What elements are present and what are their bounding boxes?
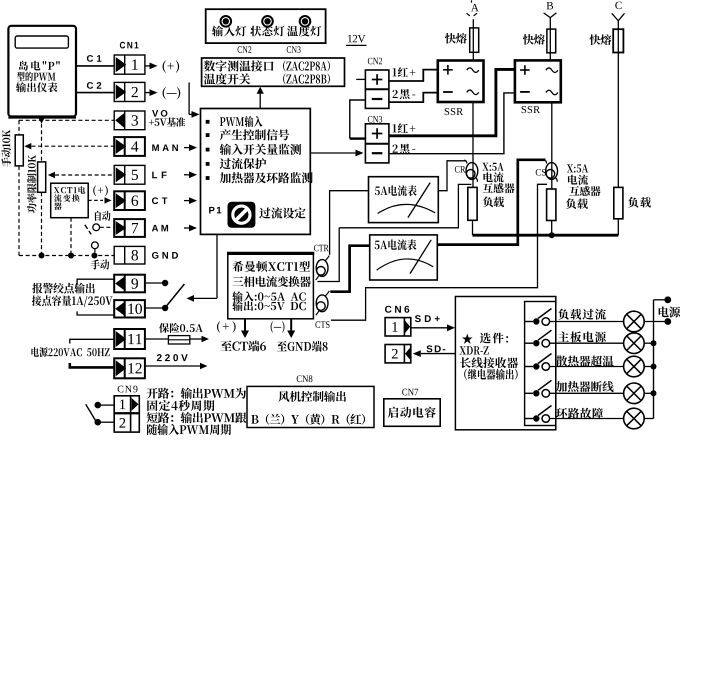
wire mains N to terminal 12 (bold) bbox=[70, 363, 114, 367]
dashed riser power-limit pot bbox=[41, 124, 43, 162]
wire lamp3 to supply bus bbox=[644, 366, 653, 368]
label CT bbox=[152, 197, 167, 204]
phase B entry bbox=[547, 2, 554, 9]
terminal CN9-1 bbox=[114, 396, 139, 413]
label 1 red + (CN3) bbox=[392, 123, 415, 133]
wire phase C direct to load bbox=[617, 21, 619, 188]
wire SSR2 to load B (phase B leg) bbox=[551, 102, 553, 189]
wire terminal 9 to relay contact bbox=[145, 282, 162, 284]
arrow AM to controller bbox=[184, 227, 192, 229]
supply dot top bbox=[664, 296, 671, 303]
wire ammeter2 left to CTS (bold) bbox=[330, 246, 369, 292]
terminal CN6-2 bbox=[385, 345, 411, 363]
label (+) for CT input bbox=[93, 185, 108, 196]
relay contact dot upper bbox=[162, 280, 168, 286]
XCT1 three-phase transducer box bbox=[228, 253, 314, 319]
dashed GND bus bbox=[19, 255, 114, 257]
wire contact to lamp bbox=[550, 321, 624, 323]
label LF bbox=[152, 172, 166, 179]
label 散热器超温 bbox=[556, 356, 614, 367]
label 环路故障 bbox=[556, 408, 603, 419]
potentiometer manual 10K bbox=[15, 135, 23, 166]
fault lamp 5 bbox=[624, 408, 645, 429]
arrow XCT1 output + (to CT terminal 6) bbox=[244, 319, 246, 332]
fast-blow fuse C bbox=[613, 29, 623, 52]
relay contact column box bbox=[525, 302, 556, 426]
current transformer CS bbox=[546, 163, 558, 180]
phase C entry bbox=[615, 2, 621, 10]
wire controller bottom to relay bbox=[216, 234, 218, 298]
controller main box bbox=[201, 109, 311, 235]
wire lamp1 to supply dot bbox=[644, 321, 664, 323]
terminal CN1-6 CT bbox=[114, 191, 145, 210]
label 12V bbox=[348, 35, 365, 43]
connector CN3 block bbox=[365, 124, 389, 163]
label 2 black - (CN2) bbox=[393, 89, 416, 99]
dashed wire XCT1 to CT terminal bbox=[88, 199, 103, 201]
relay drive arrow from controller bbox=[187, 295, 195, 302]
switch contact auto bbox=[93, 224, 100, 231]
relay contact 1 (负载过流) bbox=[525, 321, 533, 323]
arrow LF to controller bbox=[184, 174, 192, 176]
fast-blow fuse A bbox=[470, 28, 479, 52]
label GND bbox=[152, 252, 178, 259]
wire CN2+ to SSR1+ bbox=[389, 70, 438, 81]
label X:5A CT (phase A) bbox=[482, 163, 503, 171]
terminal CN9-2 bbox=[114, 414, 139, 433]
label CN2 under lamp box bbox=[238, 46, 252, 53]
junction dot switch/GND bbox=[91, 253, 97, 259]
current transformer CTR bbox=[316, 260, 328, 277]
label 负载过流 bbox=[558, 309, 606, 320]
option long-line receiver box XDR-Z bbox=[455, 297, 555, 430]
wire load C to neutral bus bbox=[617, 219, 619, 235]
terminal CN1-1 bbox=[114, 55, 145, 74]
label SD- bbox=[426, 345, 445, 352]
label (+) output bbox=[217, 321, 236, 333]
fuse 0.5A label bbox=[159, 323, 203, 333]
connector CN6 label bbox=[385, 306, 409, 313]
wire CS secondary to ammeter2 (bold) bbox=[437, 160, 545, 245]
relay contact dot lower bbox=[162, 305, 168, 311]
label to CT terminal 6 bbox=[221, 341, 266, 352]
terminal 2 output (-) bbox=[145, 92, 153, 94]
label power supply bbox=[659, 307, 681, 318]
switch contact manual bbox=[92, 242, 99, 249]
ammeter 2 (5A) bbox=[370, 235, 438, 280]
wire temperature-switch to controller bbox=[188, 82, 190, 114]
terminal CN1-9 alarm bbox=[114, 275, 145, 293]
wire fuse output arrow bbox=[190, 338, 202, 340]
junction dot load B / bus bbox=[549, 232, 555, 238]
alarm contact label bbox=[32, 283, 94, 294]
switch lever bbox=[85, 225, 91, 235]
dashed VO wire to manual pot bbox=[19, 119, 114, 121]
wire contact to lamp bbox=[550, 366, 624, 368]
wire lamp5 to supply bus bbox=[644, 418, 653, 420]
wire CS secondary return bbox=[331, 184, 547, 320]
label 220V bbox=[157, 354, 188, 361]
wiper wire LF bbox=[48, 172, 55, 178]
wire contact to lamp bbox=[550, 392, 624, 394]
alarm relay lever bbox=[167, 284, 185, 306]
terminal CN6-1 bbox=[385, 318, 411, 336]
junction dot pot2/GND bbox=[39, 253, 45, 259]
branch arrow from meter to VO line bbox=[38, 117, 45, 124]
label P1 bbox=[209, 207, 221, 214]
label SD+ bbox=[415, 315, 440, 322]
label MAN bbox=[152, 144, 178, 151]
fan control output box CN8 bbox=[247, 386, 374, 427]
wiper wire MAN bbox=[24, 143, 31, 149]
indicator lamp 状态灯 bbox=[262, 16, 273, 27]
terminal CN1-7 AM bbox=[114, 219, 145, 237]
label CN3 under lamp box bbox=[287, 46, 301, 53]
connector CN9 label bbox=[118, 386, 138, 393]
wire CN2- to CN3+ link bbox=[350, 100, 366, 139]
star option text bbox=[462, 334, 473, 344]
label 加热器断线 bbox=[556, 381, 614, 392]
label 主板电源 bbox=[558, 331, 606, 342]
fast-blow fuse B bbox=[547, 29, 556, 53]
mains supply label 220VAC 50HZ bbox=[31, 347, 109, 357]
connector CN2 label bbox=[368, 58, 382, 65]
arrow MAN to controller bbox=[184, 147, 192, 149]
lamp supply bus bbox=[653, 300, 655, 419]
wire controller output to CN3- bbox=[310, 152, 355, 154]
wire controller to temperature interface bbox=[259, 93, 261, 109]
wire mains L to terminal 11 bbox=[70, 339, 114, 343]
label load B bbox=[566, 198, 588, 209]
indicator lamp 温度灯 bbox=[300, 16, 311, 27]
wire lamp4 to supply bus bbox=[644, 392, 653, 394]
label 1 red + (CN2) bbox=[392, 67, 415, 77]
XCT1 current transducer box bbox=[51, 183, 88, 218]
load B resistor bbox=[547, 189, 556, 221]
relay contact 2 (主板电源) bbox=[525, 342, 533, 344]
label to GND terminal 8 bbox=[277, 341, 328, 352]
fuse 0.5A bbox=[168, 336, 189, 344]
ammeter 1 (5A) bbox=[369, 177, 439, 223]
phase A entry bbox=[471, 0, 473, 2]
wire lamp2 to supply bus bbox=[644, 342, 653, 344]
neutral bus (bottom) bbox=[473, 234, 619, 237]
fault lamp 3 bbox=[624, 356, 645, 377]
wire terminal 11 to fuse bbox=[145, 338, 169, 340]
label VO / +5V reference bbox=[152, 110, 167, 117]
wire 12V stub to CN2+ bbox=[356, 78, 365, 80]
solid state relay SSR2 bbox=[515, 60, 561, 102]
relay contact 5 (环路故障) bbox=[525, 418, 533, 420]
label load A bbox=[483, 197, 504, 208]
wire C2: meter to terminal 2 bbox=[76, 92, 114, 94]
CN9 jumper lever bbox=[86, 404, 96, 420]
connector CN1 label bbox=[120, 42, 139, 49]
junction dot XCT1/GND bbox=[68, 253, 74, 259]
relay contact 4 (加热器断线) bbox=[525, 392, 533, 394]
label X:5A CT (phase B) bbox=[567, 164, 588, 172]
label (-) output bbox=[271, 321, 285, 333]
terminal CN1-5 LF bbox=[114, 165, 145, 184]
load A resistor bbox=[468, 187, 477, 220]
dashed drop from XCT1 to GND bus bbox=[70, 218, 72, 256]
terminal CN1-3 VO bbox=[114, 111, 145, 130]
PWM meter (Shimaden P-type PWM output instrument) bbox=[8, 26, 76, 117]
wire receiver to CN6-2 (SD-) bbox=[421, 353, 455, 355]
current transformer CTS bbox=[316, 295, 328, 312]
potentiometer power limit 10K bbox=[38, 162, 46, 192]
arrow CT to controller bbox=[184, 200, 192, 202]
connector CN2 block bbox=[365, 70, 389, 108]
wire contact to lamp bbox=[550, 418, 624, 420]
indicator lamp 输入灯 bbox=[221, 16, 232, 27]
wire phase A to fuse and SSR1 bbox=[472, 19, 474, 60]
start capacitor box CN7 bbox=[384, 399, 440, 427]
terminal CN1-4 MAN bbox=[114, 137, 145, 156]
wire terminal 10 to relay contact bbox=[145, 307, 162, 309]
label overcurrent setting bbox=[259, 207, 305, 218]
wire CR secondary to ammeter1 bbox=[438, 161, 465, 191]
fault lamp 2 bbox=[624, 333, 645, 354]
label 2 black - (CN3) bbox=[393, 144, 416, 154]
terminal CN1-11 AC-L bbox=[114, 329, 145, 349]
wire SSR1 to load A (phase A leg) bbox=[472, 102, 474, 187]
wire terminal 12 output arrow bbox=[145, 365, 200, 367]
wire contact to lamp bbox=[550, 342, 624, 344]
label AM bbox=[152, 225, 168, 232]
CN9 mode text bbox=[147, 388, 246, 399]
overcurrent trimpot icon P1 bbox=[228, 202, 256, 228]
terminal 1 output (+) bbox=[145, 65, 153, 67]
arrow XCT1 output - (to GND terminal 8) bbox=[290, 319, 292, 332]
wire C1: meter to terminal 1 bbox=[76, 65, 114, 67]
terminal CN1-8 GND bbox=[114, 246, 145, 264]
connector CN3 label bbox=[368, 116, 382, 123]
wire phase B to fuse and SSR2 bbox=[549, 18, 551, 61]
controller functions text bbox=[206, 120, 210, 124]
wire load A to neutral bus bbox=[472, 220, 474, 235]
CN9 jumper contact 2 bbox=[95, 419, 102, 426]
wire load B to neutral bus bbox=[551, 221, 553, 236]
wire CN2- to SSR1- bbox=[389, 93, 438, 103]
label manual (switch position) bbox=[91, 259, 110, 269]
connector CN7 label bbox=[402, 389, 418, 396]
wire terminal 9 bracket bbox=[77, 279, 114, 284]
terminal CN1-10 alarm bbox=[114, 300, 145, 317]
wire ammeter1 left to CTR bbox=[330, 191, 369, 255]
dashed riser manual pot bbox=[18, 120, 20, 135]
label load C bbox=[628, 197, 651, 208]
current transformer CR bbox=[466, 163, 478, 180]
solid state relay SSR1 bbox=[438, 61, 484, 103]
wire CR secondary return bbox=[339, 184, 471, 227]
terminal CN1-2 bbox=[114, 82, 145, 101]
wire CN6-1 to receiver (SD+) bbox=[411, 327, 448, 329]
terminal CN1-12 AC-N bbox=[114, 358, 145, 378]
temperature interface box ZAC2P8A/ZAC2P8B bbox=[202, 58, 345, 86]
CN9 jumper contact 1 bbox=[95, 402, 102, 409]
fault lamp 4 bbox=[624, 383, 645, 404]
wire CN3- to SSR2- bbox=[389, 93, 515, 154]
relay contact 3 (散热器超温) bbox=[525, 366, 533, 368]
fault lamp 1 bbox=[624, 311, 645, 332]
connector CN8 label bbox=[297, 375, 313, 382]
wire terminal 10 bracket bbox=[77, 311, 114, 315]
wire CTR return to CR bbox=[318, 228, 340, 282]
wire CN3+ to SSR2+ (bold) bbox=[389, 69, 515, 135]
load C resistor bbox=[614, 187, 623, 218]
label auto (switch position) bbox=[95, 211, 111, 221]
indicator lamp box bbox=[206, 9, 326, 43]
